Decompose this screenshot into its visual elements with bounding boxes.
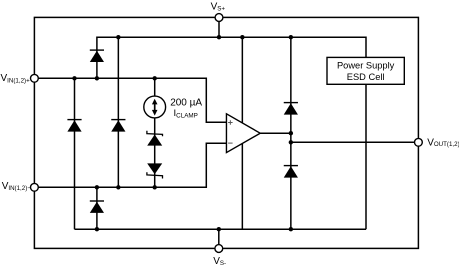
svg-text:Power Supply: Power Supply bbox=[337, 61, 395, 71]
svg-text:VS+: VS+ bbox=[211, 2, 226, 13]
svg-text:VIN(1,2)+: VIN(1,2)+ bbox=[1, 73, 31, 84]
svg-text:VIN(1,2)−: VIN(1,2)− bbox=[2, 181, 32, 192]
svg-text:VOUT(1,2): VOUT(1,2) bbox=[427, 137, 459, 148]
svg-text:200 µA: 200 µA bbox=[170, 97, 202, 108]
svg-text:VS-: VS- bbox=[213, 256, 226, 266]
svg-text:ESD Cell: ESD Cell bbox=[347, 72, 385, 82]
svg-text:ICLAMP: ICLAMP bbox=[174, 108, 198, 119]
